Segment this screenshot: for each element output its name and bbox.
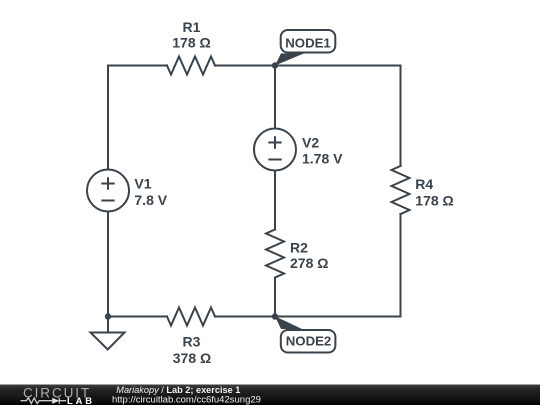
svg-text:R3: R3 (183, 334, 201, 350)
svg-text:Mariakopy / Lab 2; exercise 1: Mariakopy / Lab 2; exercise 1 (116, 385, 240, 395)
svg-text:LAB: LAB (67, 395, 95, 405)
svg-text:NODE2: NODE2 (286, 333, 331, 348)
svg-text:178 Ω: 178 Ω (172, 35, 210, 51)
svg-text:378 Ω: 378 Ω (173, 350, 211, 366)
svg-text:V2: V2 (302, 135, 319, 151)
svg-text:NODE1: NODE1 (285, 36, 330, 51)
svg-text:7.8 V: 7.8 V (134, 192, 167, 208)
svg-text:R1: R1 (183, 19, 201, 35)
svg-text:278 Ω: 278 Ω (290, 255, 328, 271)
svg-text:R4: R4 (415, 176, 433, 192)
svg-text:http://circuitlab.com/cc6fu42s: http://circuitlab.com/cc6fu42sung29 (112, 395, 261, 405)
svg-text:1.78 V: 1.78 V (302, 151, 343, 167)
svg-text:178 Ω: 178 Ω (415, 193, 453, 209)
svg-text:V1: V1 (134, 176, 151, 192)
svg-text:R2: R2 (290, 239, 308, 255)
